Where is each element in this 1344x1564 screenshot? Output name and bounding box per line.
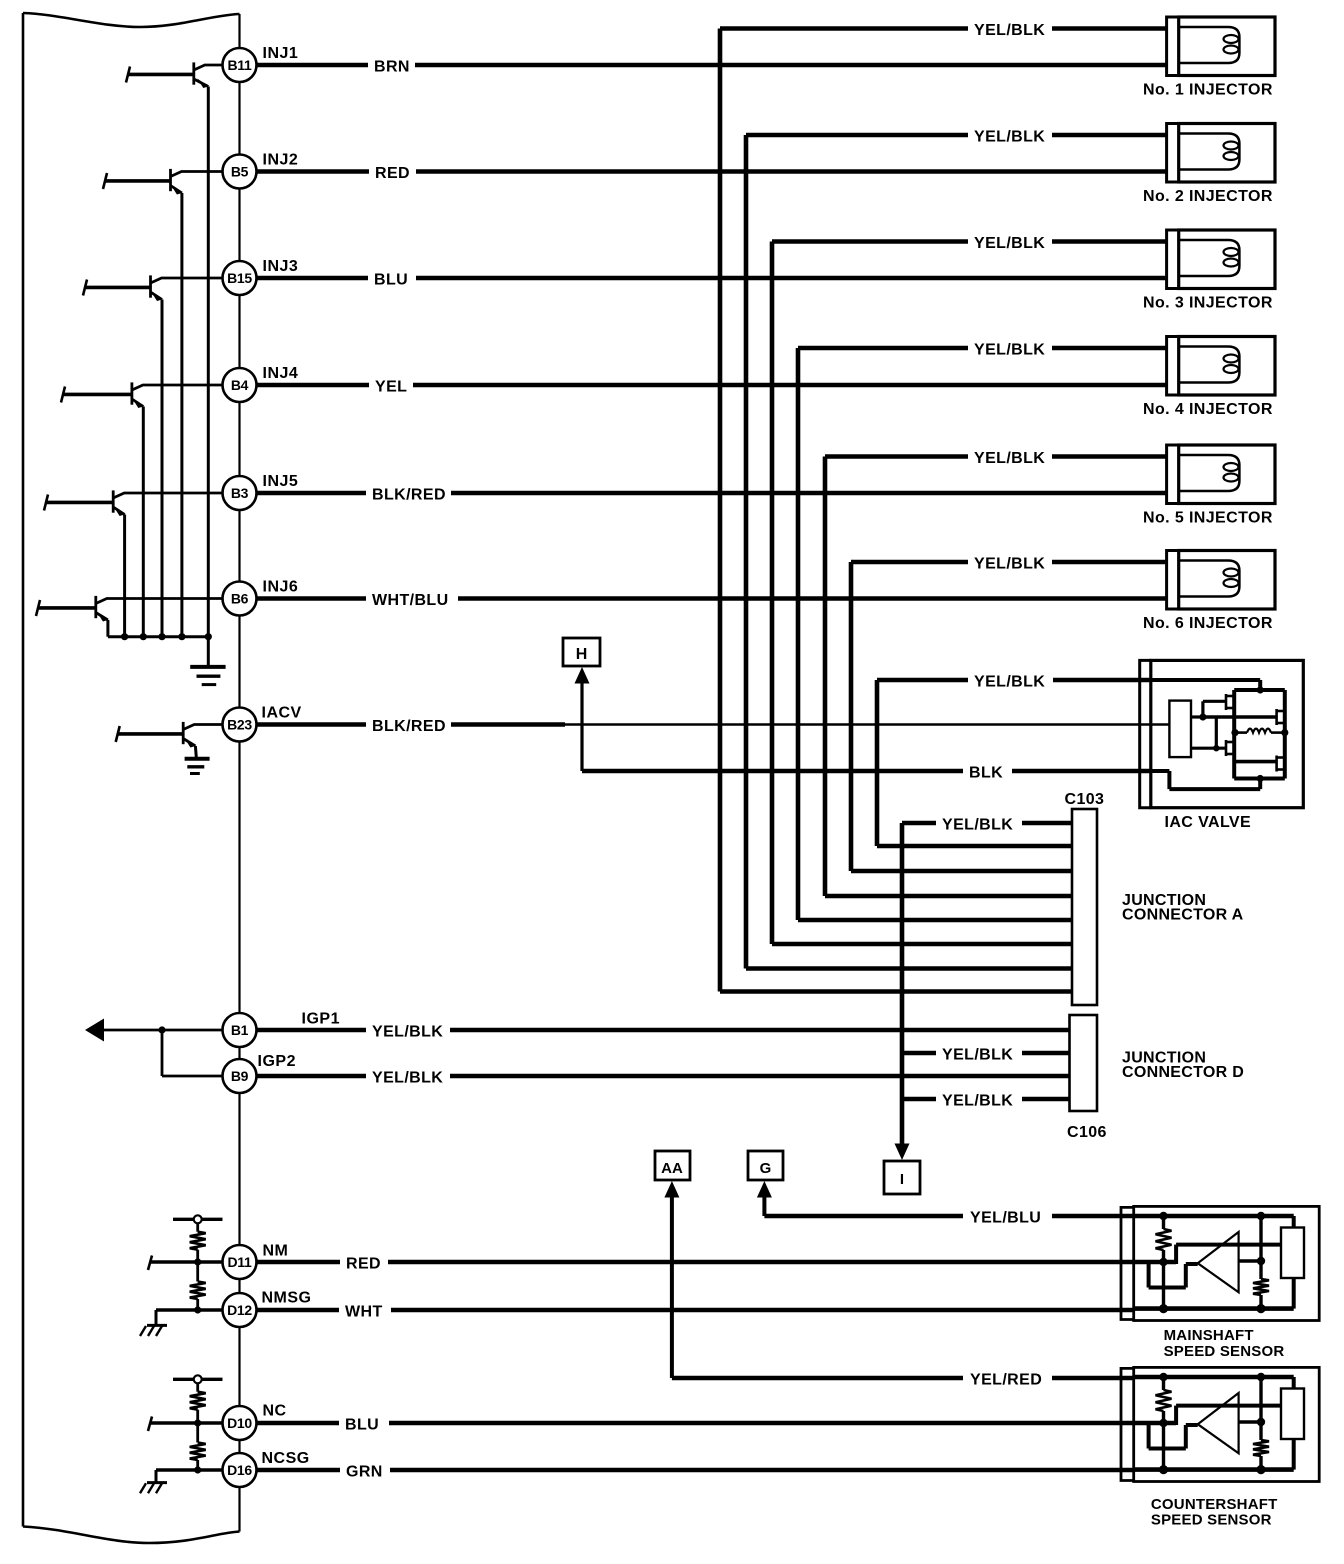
wire to connector AA (arrow up) (664, 1181, 679, 1378)
label JUNCTION CONNECTOR D (1122, 1050, 1244, 1082)
svg-text:BLK/RED: BLK/RED (372, 718, 446, 735)
wire ECM internal bus (vertical) (238, 14, 240, 1532)
wire NC (tick to D10) (150, 1421, 223, 1424)
label wire color BLK/RED (IACV) (372, 718, 446, 735)
junction IGP1/IGP2 tie (158, 1026, 165, 1033)
junction emitter bus (158, 633, 165, 640)
transistor Q5 (injector driver 5) (44, 490, 223, 516)
svg-text:WHT: WHT (345, 1304, 383, 1321)
svg-text:No. 5 INJECTOR: No. 5 INJECTOR (1143, 510, 1273, 527)
wire WHT/BLU (pin to No.6 injector) (257, 596, 1167, 601)
wire emitter Q7 to ground (195, 746, 196, 759)
wire BLK/RED (B23 to IAC valve) (257, 722, 1153, 727)
label C106 (1067, 1124, 1107, 1141)
connector AA box (655, 1151, 690, 1180)
svg-text:RED: RED (346, 1256, 381, 1273)
svg-text:NM: NM (263, 1243, 289, 1260)
label pin name INJ2 (263, 152, 299, 169)
wire BLU (pin to No.3 injector) (257, 276, 1167, 281)
wire IGP1 YEL/BLK (B1 to C106 pin1) (257, 1028, 1070, 1033)
injector No.3 (solenoid) (1167, 230, 1275, 289)
svg-text:D10: D10 (227, 1415, 252, 1431)
node pin D12 (NMSG) (223, 1293, 257, 1327)
node pin B15 (INJ3) (223, 261, 257, 295)
label wire color YEL/BLK (C106 pin4) (942, 1093, 1013, 1110)
label wire color YEL/BLK (No.5) (974, 450, 1045, 467)
label No. 6 INJECTOR (1143, 615, 1273, 632)
wire IGP tie vertical (161, 1030, 164, 1076)
label wire color YEL/BLK (No.3) (974, 235, 1045, 252)
IAC valve (component) (1140, 660, 1304, 807)
wire emitter Q1 to common ground bus (207, 87, 210, 637)
svg-text:B11: B11 (227, 57, 252, 73)
wire C103 pin8 (720, 989, 1072, 994)
transistor Q6 (injector driver 6) (36, 596, 223, 622)
svg-text:YEL: YEL (375, 379, 407, 396)
wire IGP tie to B9 (162, 1075, 223, 1078)
svg-text:YEL/BLK: YEL/BLK (974, 129, 1045, 146)
svg-text:YEL/BLK: YEL/BLK (974, 556, 1045, 573)
svg-text:INJ2: INJ2 (263, 152, 299, 169)
chassis ground (NMSG) (140, 1325, 167, 1336)
wire emitter Q6 to common ground bus (106, 620, 109, 637)
label wire color WHT (345, 1304, 383, 1321)
ground (injector drivers) (190, 667, 225, 685)
label pin name INJ5 (263, 473, 299, 490)
label wire color YEL/BLK (C106 pin2) (942, 1047, 1013, 1064)
wire YEL/BLK (No.2 injector feed) (746, 133, 1167, 138)
node pin B1 (IGP1) (223, 1013, 257, 1047)
label No. 4 INJECTOR (1143, 401, 1273, 418)
label No. 3 INJECTOR (1143, 295, 1273, 312)
wire BLK/RED (pin to No.5 injector) (257, 491, 1167, 496)
label wire color BLU (374, 272, 408, 289)
node pin B9 (IGP2) (223, 1059, 257, 1093)
svg-text:IACV: IACV (262, 705, 302, 722)
svg-text:B23: B23 (227, 717, 252, 733)
svg-text:MAINSHAFT: MAINSHAFT (1164, 1327, 1254, 1344)
wire YEL/BLK (No.6 injector feed) (851, 560, 1167, 565)
label No. 1 INJECTOR (1143, 82, 1273, 99)
wire IGP2 YEL/BLK (B9 to C106 pin3) (257, 1074, 1070, 1079)
svg-text:No. 4 INJECTOR: No. 4 INJECTOR (1143, 401, 1273, 418)
node pin B3 (INJ5) (223, 476, 257, 510)
wire C103 pin7 (746, 966, 1072, 971)
label C103 (1065, 791, 1105, 808)
wire BLK (IAC valve to H) (582, 769, 1151, 774)
label IAC VALVE (1165, 814, 1252, 831)
label JUNCTION CONNECTOR A (1122, 892, 1244, 924)
svg-text:INJ3: INJ3 (263, 258, 299, 275)
svg-text:RED: RED (375, 165, 410, 182)
wire C103 pin6 (772, 942, 1072, 947)
svg-text:INJ4: INJ4 (263, 365, 299, 382)
svg-text:YEL/BLK: YEL/BLK (974, 674, 1045, 691)
label MAINSHAFT SPEED SENSOR (1164, 1327, 1285, 1360)
wire YEL/BLK vertical feed No.4 (796, 348, 801, 920)
svg-text:YEL/BLK: YEL/BLK (974, 450, 1045, 467)
injector No.2 (solenoid) (1167, 124, 1275, 183)
svg-text:B1: B1 (231, 1022, 249, 1038)
wire YEL/BLK (No.5 injector feed) (825, 454, 1167, 459)
transistor Q7 (IACV driver) (116, 722, 223, 748)
wire BRN (pin to No.1 injector) (257, 63, 1167, 68)
junction emitter bus (121, 633, 128, 640)
svg-text:D12: D12 (227, 1302, 252, 1318)
node pin B6 (INJ6) (223, 582, 257, 616)
junction connector A C103 (body) (1072, 809, 1097, 1005)
wire common emitter bus (108, 635, 208, 638)
svg-text:YEL/BLK: YEL/BLK (372, 1070, 443, 1087)
wire GRN (D16 to countershaft sensor) (257, 1468, 1134, 1473)
wire YEL/BLK (No.1 injector feed) (720, 26, 1167, 31)
wire NM (tick to D11) (150, 1260, 223, 1263)
wire ECM boundary (left edge) (22, 13, 25, 1527)
wire YEL/BLK vertical feed No.3 (770, 242, 775, 945)
node pin B11 (INJ1) (223, 48, 257, 82)
label wire color BRN (374, 59, 410, 76)
svg-text:NMSG: NMSG (262, 1290, 312, 1307)
label pin name INJ1 (263, 45, 299, 62)
svg-text:YEL/BLK: YEL/BLK (974, 342, 1045, 359)
wire YEL/BLK (No.4 injector feed) (798, 346, 1167, 351)
svg-text:AA: AA (661, 1160, 683, 1177)
svg-text:CONNECTOR D: CONNECTOR D (1122, 1064, 1244, 1081)
svg-text:D11: D11 (227, 1254, 252, 1270)
svg-text:C106: C106 (1067, 1124, 1107, 1141)
wire YEL/BLK vertical feed IAC (875, 680, 880, 846)
transistor Q1 (injector driver 1) (126, 62, 223, 88)
wire WHT (D12 to mainshaft sensor) (257, 1308, 1134, 1313)
label wire color WHT/BLU (372, 592, 449, 609)
node pin B4 (INJ4) (223, 368, 257, 402)
connector H box (563, 638, 600, 666)
wire NM RED lead-in tick (148, 1256, 152, 1271)
wire to connector G (arrow up) (757, 1181, 772, 1216)
wire YEL/BLK (No.3 injector feed) (772, 239, 1167, 244)
node pin D11 (NM) (223, 1245, 257, 1279)
wire YEL/BLK vertical feed No.2 (744, 135, 749, 969)
svg-text:YEL/BLK: YEL/BLK (942, 1093, 1013, 1110)
svg-text:D16: D16 (227, 1462, 252, 1478)
svg-text:YEL/BLK: YEL/BLK (974, 235, 1045, 252)
svg-text:SPEED SENSOR: SPEED SENSOR (1164, 1343, 1285, 1360)
wire C106 pin2 YEL/BLK (902, 1051, 1070, 1056)
svg-text:YEL/RED: YEL/RED (970, 1372, 1042, 1389)
transistor Q4 (injector driver 4) (61, 382, 223, 408)
wire YEL/BLK vertical (C103 pin1 to I) (900, 823, 905, 1144)
svg-text:B6: B6 (231, 591, 249, 607)
svg-text:B4: B4 (231, 377, 249, 393)
label COUNTERSHAFT SPEED SENSOR (1151, 1496, 1278, 1529)
label wire color YEL/BLK (IGP1) (372, 1024, 443, 1041)
wire emitter Q5 to common ground bus (123, 515, 126, 637)
label wire color YEL/BLK (C103 pin1) (942, 817, 1013, 834)
wire RED (D11 to mainshaft sensor) (257, 1260, 1134, 1265)
label pin name NM (263, 1243, 289, 1260)
connector I box (884, 1161, 920, 1194)
node pin B23 (IACV) (223, 708, 257, 742)
wire to connector H (arrow up) (575, 667, 590, 771)
node pin D10 (NC) (223, 1406, 257, 1440)
svg-text:IGP2: IGP2 (258, 1053, 296, 1070)
label wire color YEL/BLK (No.1) (974, 22, 1045, 39)
svg-text:WHT/BLU: WHT/BLU (372, 592, 449, 609)
wire C103 pin5 (798, 918, 1072, 923)
wire emitter Q3 to common ground bus (161, 300, 164, 637)
wire ECM boundary (top edge, torn) (23, 13, 240, 27)
label wire color BLU (345, 1417, 379, 1434)
wire emitter Q4 to common ground bus (142, 407, 145, 637)
svg-text:INJ5: INJ5 (263, 473, 299, 490)
node arrow (IGP supply, points left) (85, 1019, 104, 1042)
label pin name NCSG (262, 1450, 310, 1467)
label No. 5 INJECTOR (1143, 510, 1273, 527)
countershaft speed sensor (component) (1121, 1367, 1319, 1481)
svg-text:BLU: BLU (345, 1417, 379, 1434)
svg-text:YEL/BLU: YEL/BLU (970, 1210, 1041, 1227)
svg-text:IGP1: IGP1 (302, 1011, 340, 1028)
label pin name INJ4 (263, 365, 299, 382)
wire ground stem (207, 637, 210, 667)
label wire color GRN (346, 1464, 383, 1481)
label wire color YEL/BLK (IGP2) (372, 1070, 443, 1087)
wire YEL/BLK vertical feed No.5 (823, 457, 828, 897)
label wire color YEL/BLK (No.6) (974, 556, 1045, 573)
label wire color RED (375, 165, 410, 182)
wire YEL/BLU (G to mainshaft sensor) (764, 1214, 1133, 1219)
svg-text:COUNTERSHAFT: COUNTERSHAFT (1151, 1496, 1278, 1513)
node pin D16 (NCSG) (223, 1453, 257, 1487)
transistor Q2 (injector driver 2) (103, 169, 223, 195)
svg-text:NCSG: NCSG (262, 1450, 310, 1467)
label pin name INJ6 (263, 579, 299, 596)
svg-text:No. 3 INJECTOR: No. 3 INJECTOR (1143, 295, 1273, 312)
resistor network R1/R2 (NM/NMSG pull-up) (173, 1215, 223, 1313)
svg-text:B9: B9 (231, 1068, 249, 1084)
svg-text:No. 1 INJECTOR: No. 1 INJECTOR (1143, 82, 1273, 99)
arrow into connector I (points down) (895, 1144, 910, 1161)
label pin name IGP1 (302, 1011, 340, 1028)
wire ECM boundary (bottom edge, torn) (23, 1527, 240, 1544)
injector No.4 (solenoid) (1167, 337, 1275, 396)
wire C103 pin3 (851, 869, 1072, 874)
wire YEL/BLK vertical feed No.1 (718, 29, 723, 992)
wire emitter Q2 to common ground bus (180, 193, 183, 637)
label wire color YEL/BLK (IAC) (974, 674, 1045, 691)
label wire color BLK/RED (372, 487, 446, 504)
label wire color RED (346, 1256, 381, 1273)
label wire color YEL (375, 379, 407, 396)
junction emitter bus (205, 633, 212, 640)
chassis ground (NCSG) (140, 1483, 167, 1494)
label wire color BLK (969, 765, 1003, 782)
svg-text:B3: B3 (231, 485, 249, 501)
label wire color YEL/BLK (No.2) (974, 129, 1045, 146)
svg-text:YEL/BLK: YEL/BLK (942, 1047, 1013, 1064)
svg-text:BLK/RED: BLK/RED (372, 487, 446, 504)
label pin name IACV (262, 705, 302, 722)
svg-text:CONNECTOR A: CONNECTOR A (1122, 907, 1244, 924)
svg-text:C103: C103 (1065, 791, 1105, 808)
svg-text:BLK: BLK (969, 765, 1003, 782)
ground (IACV driver) (185, 759, 210, 774)
svg-text:B5: B5 (231, 164, 249, 180)
svg-text:GRN: GRN (346, 1464, 383, 1481)
wire YEL/BLK (IAC valve feed) (877, 678, 1152, 683)
wire NMSG (ground corner to D12) (156, 1310, 223, 1325)
label pin name NC (263, 1403, 287, 1420)
junction connector D C106 (body) (1070, 1015, 1098, 1111)
label wire color YEL/RED (970, 1372, 1042, 1389)
injector No.1 (solenoid) (1167, 17, 1275, 76)
svg-text:G: G (760, 1160, 772, 1177)
wire C103 pin1 YEL/BLK (902, 821, 1072, 826)
label wire color YEL/BLU (970, 1210, 1041, 1227)
svg-text:BLU: BLU (374, 272, 408, 289)
wire B1 to left arrow (100, 1029, 223, 1032)
label wire color YEL/BLK (No.4) (974, 342, 1045, 359)
svg-text:SPEED SENSOR: SPEED SENSOR (1151, 1512, 1272, 1529)
wire NC BLU lead-in tick (148, 1417, 152, 1432)
svg-text:B15: B15 (227, 270, 252, 286)
svg-text:NC: NC (263, 1403, 287, 1420)
junction emitter bus (178, 633, 185, 640)
label pin name NMSG (262, 1290, 312, 1307)
svg-text:YEL/BLK: YEL/BLK (974, 22, 1045, 39)
svg-text:I: I (900, 1171, 904, 1188)
svg-text:H: H (576, 646, 588, 663)
wire YEL/RED (AA to countershaft sensor) (672, 1376, 1134, 1381)
label No. 2 INJECTOR (1143, 188, 1273, 205)
injector No.5 (solenoid) (1167, 445, 1275, 504)
label pin name INJ3 (263, 258, 299, 275)
junction emitter bus (140, 633, 147, 640)
svg-text:INJ6: INJ6 (263, 579, 299, 596)
svg-text:INJ1: INJ1 (263, 45, 299, 62)
mainshaft speed sensor (component) (1121, 1206, 1319, 1320)
wire YEL/BLK vertical feed No.6 (849, 562, 854, 871)
injector No.6 (solenoid) (1167, 551, 1275, 610)
wire C106 pin4 YEL/BLK (902, 1097, 1070, 1102)
svg-text:IAC VALVE: IAC VALVE (1165, 814, 1252, 831)
wire NCSG (ground corner to D16) (156, 1470, 223, 1483)
svg-text:YEL/BLK: YEL/BLK (942, 817, 1013, 834)
wire BLU (D10 to countershaft sensor) (257, 1421, 1134, 1426)
wire C103 pin2 (877, 844, 1072, 849)
transistor Q3 (injector driver 3) (83, 275, 223, 301)
label pin name IGP2 (258, 1053, 296, 1070)
connector G box (748, 1151, 783, 1180)
wire C103 pin4 (825, 894, 1072, 899)
node pin B5 (INJ2) (223, 155, 257, 189)
svg-text:No. 6 INJECTOR: No. 6 INJECTOR (1143, 615, 1273, 632)
svg-text:YEL/BLK: YEL/BLK (372, 1024, 443, 1041)
svg-text:BRN: BRN (374, 59, 410, 76)
wire YEL (pin to No.4 injector) (257, 383, 1167, 388)
resistor network R3/R4 (NC/NCSG pull-up) (173, 1375, 223, 1473)
svg-text:No. 2 INJECTOR: No. 2 INJECTOR (1143, 188, 1273, 205)
wire RED (pin to No.2 injector) (257, 169, 1167, 174)
